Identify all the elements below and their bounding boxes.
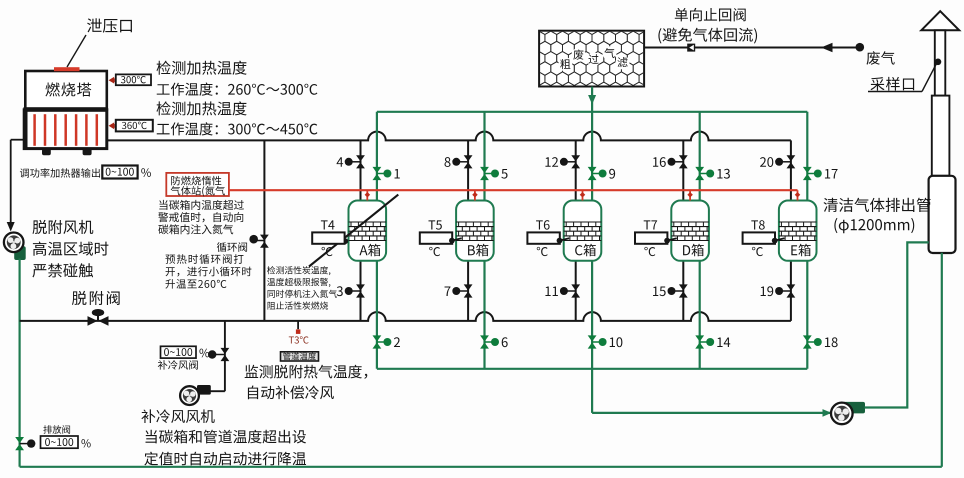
- wire unit D箱 bottom green: [699, 261, 701, 369]
- label C T8: [752, 247, 763, 256]
- valve 17: [803, 167, 812, 173]
- valve 8: [464, 155, 473, 161]
- probe diagonal T4: [309, 195, 398, 267]
- text working temp 1: [157, 83, 318, 96]
- red stub into box C箱: [582, 190, 584, 200]
- label 9: [609, 169, 615, 179]
- valve 9: [588, 167, 597, 173]
- wire left downcomer: [10, 140, 12, 223]
- label T8: [751, 220, 764, 229]
- label 16: [653, 157, 666, 167]
- flow arrow waste gas: [821, 43, 833, 53]
- arrow to tower at 300C: [109, 77, 115, 84]
- valve 1: [373, 167, 382, 173]
- desorption valve 脱附阀: [92, 309, 104, 316]
- desorption fan housing: [14, 246, 26, 260]
- label A箱: [359, 244, 380, 256]
- T3 sensor tick: [297, 321, 299, 329]
- check valve 单向止回阀: [687, 44, 695, 52]
- leader line to 泄压口 label: [67, 35, 86, 67]
- label 废气: [867, 51, 895, 65]
- label 0~100 cold air: [164, 348, 192, 356]
- text heating temp 2: [157, 101, 247, 115]
- label 18: [825, 337, 838, 347]
- adsorber box B箱: [456, 201, 494, 261]
- thick separator bar: [24, 107, 108, 112]
- valve 14: [695, 335, 704, 341]
- label % discharge: [81, 439, 90, 447]
- label 300C: [121, 76, 146, 83]
- label C T7: [644, 247, 655, 256]
- label 补冷风风机: [141, 409, 214, 423]
- label T5: [428, 220, 441, 229]
- wire unit B箱 top black: [467, 140, 469, 200]
- label 10: [610, 337, 623, 347]
- pressure relief cap 泄压口: [54, 67, 80, 71]
- valve 19: [787, 284, 796, 290]
- label C箱: [575, 244, 596, 256]
- label 循环阀: [217, 242, 247, 252]
- carbon bed band B箱: [456, 222, 494, 241]
- label T6: [536, 220, 550, 229]
- label 补冷风阀: [158, 360, 198, 369]
- label 15: [653, 286, 666, 296]
- wire cold-air branch vertical: [224, 321, 226, 391]
- valve 11: [571, 284, 580, 290]
- label φ1200mm: [834, 218, 914, 233]
- label 360C: [122, 122, 147, 129]
- red stub into box B箱: [474, 190, 476, 200]
- text 温度超极限报警: [267, 278, 330, 287]
- circulation fan: [831, 403, 853, 425]
- wire unit E箱 top black: [790, 140, 792, 200]
- label 11: [545, 286, 557, 296]
- combustion tower upper body 燃烧塔: [25, 71, 107, 110]
- text heating temp 1: [157, 61, 247, 75]
- waste gas inlet dot: [856, 43, 865, 52]
- wire unit C箱 bottom black: [575, 261, 577, 321]
- label 8: [444, 157, 450, 167]
- label 气体站(氮气: [171, 186, 225, 197]
- label 12: [545, 157, 558, 167]
- wire circulation vertical: [263, 140, 265, 321]
- wire filter drop: [591, 87, 593, 112]
- label 采样口 with leader: [871, 77, 915, 91]
- cold air valve actuator: [215, 354, 225, 356]
- text 开，进行小循环时: [166, 267, 252, 277]
- wire unit A箱 top green: [376, 112, 378, 201]
- probe tip T8: [775, 238, 785, 240]
- wire green left vertical: [19, 259, 21, 467]
- tower foot right: [83, 149, 92, 156]
- label 管道温度: [283, 352, 316, 360]
- heater box of tower: [24, 110, 107, 149]
- label 0~100 discharge: [45, 438, 73, 446]
- wire unit B箱 top green: [483, 112, 485, 201]
- T3 sensor red tip: [296, 329, 301, 334]
- probe tip T5: [452, 238, 462, 240]
- red stub into box D箱: [689, 190, 691, 200]
- label 4: [337, 157, 344, 167]
- label 燃烧塔: [45, 82, 91, 96]
- probe tip T6: [560, 238, 570, 240]
- cold air fan housing: [197, 385, 211, 395]
- stack cone: [921, 11, 959, 30]
- flow arrow filter drop: [588, 95, 596, 105]
- label 6: [502, 337, 508, 347]
- wire top black manifold: [107, 132, 791, 141]
- valve 10: [588, 335, 597, 341]
- label 泄压口: [87, 18, 132, 33]
- stack neck: [935, 30, 946, 95]
- text 调功率加热器输出: [20, 168, 100, 177]
- label 14: [717, 337, 730, 347]
- wire unit D箱 top black: [682, 140, 684, 200]
- text 自动补偿冷风: [248, 386, 334, 400]
- carbon bed band E箱: [779, 222, 817, 241]
- carbon bed band D箱: [671, 222, 709, 241]
- flow arrow into fan: [823, 409, 832, 417]
- adsorber box A箱: [349, 201, 387, 261]
- valve 2: [373, 335, 382, 341]
- wire unit E箱 bottom green: [806, 261, 808, 369]
- desorption fan 脱附风机: [4, 233, 24, 253]
- valve 6: [480, 335, 489, 341]
- red stub into box E箱: [797, 190, 799, 200]
- text 当碳箱和管道温度超出设: [146, 430, 307, 444]
- valve 20: [787, 155, 796, 161]
- sampling port dot: [935, 59, 942, 66]
- box 360C: [116, 120, 153, 132]
- wire unit B箱 bottom black: [467, 261, 469, 321]
- filter label chars 粗废过气滤: [558, 57, 572, 71]
- wire unit E箱 top green: [806, 112, 808, 201]
- box 0~100 cold air: [161, 346, 197, 358]
- valve 13: [695, 167, 704, 173]
- valve 15: [679, 284, 688, 290]
- valve 4: [356, 155, 365, 161]
- wire lower black manifold: [20, 312, 791, 321]
- text working temp 2: [157, 122, 318, 135]
- wire unit B箱 bottom green: [483, 261, 485, 369]
- heater elements (red rods): [35, 114, 97, 146]
- adsorber box D箱: [671, 201, 709, 261]
- circulation fan housing: [843, 402, 866, 414]
- text 阻止活性炭燃烧: [268, 301, 329, 309]
- text 检测活性炭温度: [267, 266, 330, 275]
- cold air fan 补冷风风机: [180, 386, 199, 405]
- probe body T6: [527, 232, 559, 243]
- label 脱附风机: [32, 220, 93, 234]
- label 17: [825, 169, 838, 179]
- probe tip T7: [667, 238, 677, 240]
- adsorber box E箱: [779, 201, 817, 261]
- text 预热时循环阀打: [165, 254, 243, 264]
- wire unit C箱 top black: [575, 140, 577, 200]
- wire unit C箱 bottom green: [591, 261, 593, 369]
- label 高温区域时: [33, 242, 109, 256]
- wire unit A箱 bottom green: [376, 261, 378, 369]
- adsorber box C箱: [564, 201, 602, 261]
- label C T6: [537, 247, 548, 256]
- text 同时停机注入氮气: [268, 290, 337, 298]
- text 监测脱附热气温度: [245, 365, 368, 379]
- wire green top header: [377, 111, 807, 113]
- wire drop to circulation fan: [591, 369, 593, 413]
- text 当碳箱内温度超过: [159, 200, 244, 210]
- nitrogen station box 防燃烧惰性气体站: [166, 173, 229, 196]
- label 1: [395, 169, 400, 179]
- box 0~100 discharge: [41, 436, 79, 448]
- label 20: [760, 157, 773, 167]
- discharge valve 排放阀: [15, 437, 24, 443]
- wire unit D箱 top green: [699, 112, 701, 201]
- valve 12: [571, 155, 580, 161]
- valve 16: [679, 155, 688, 161]
- stack lower drum: [929, 176, 956, 253]
- wire unit C箱 top green: [591, 112, 593, 201]
- valve 7: [464, 284, 473, 290]
- text 升温至260C: [165, 279, 226, 289]
- label 严禁碰触: [32, 263, 93, 277]
- wire stack bottom drop: [941, 253, 943, 467]
- wire unit E箱 bottom black: [790, 261, 792, 321]
- label 3: [337, 286, 343, 296]
- label T4: [321, 220, 335, 229]
- label % heater: [141, 168, 151, 177]
- carbon bed band A箱: [349, 222, 387, 241]
- box 管道温度: [281, 352, 319, 361]
- label C T5: [429, 247, 440, 256]
- text 定值时自动启动进行降温: [144, 452, 306, 466]
- wire fan outlet: [865, 242, 929, 407]
- wire unit D箱 bottom black: [682, 261, 684, 321]
- probe body T4: [312, 232, 344, 243]
- label T3C: [289, 336, 309, 343]
- box 0~100 heater: [102, 166, 137, 179]
- label 清洁气体排出管: [824, 198, 931, 212]
- label 避免气体回流: [658, 28, 757, 44]
- text 警戒值时自动向: [158, 212, 243, 222]
- wire to circulation fan: [592, 412, 830, 414]
- label 19: [761, 286, 774, 296]
- label C T4: [322, 247, 333, 256]
- label 7: [445, 286, 451, 296]
- valve 5: [480, 167, 489, 173]
- label 排放阀: [43, 425, 70, 434]
- label B箱: [468, 244, 488, 256]
- cold air valve 补冷风阀: [221, 348, 230, 354]
- text 碳箱内注入氮气: [158, 224, 233, 234]
- label 0~100 heater: [106, 168, 134, 176]
- arrow to tower at 360C: [109, 122, 115, 129]
- flow arrow down to fan: [7, 222, 15, 232]
- wire unit A箱 bottom black: [360, 261, 362, 321]
- discharge valve actuator dot: [20, 443, 30, 445]
- valve 3: [356, 284, 365, 290]
- tower foot left: [42, 149, 51, 156]
- wire unit A箱 top black: [360, 140, 362, 200]
- label % cold air: [199, 349, 209, 358]
- probe body T8: [743, 232, 775, 243]
- circulation valve actuator: [254, 240, 264, 242]
- valve 18: [803, 335, 812, 341]
- wire green bottom header: [377, 368, 807, 370]
- probe body T7: [635, 232, 667, 243]
- label 13: [717, 169, 730, 179]
- label E箱: [791, 244, 810, 256]
- label 2: [394, 337, 400, 347]
- label 5: [501, 169, 507, 179]
- wire nitrogen red line: [228, 189, 797, 191]
- carbon bed band C箱: [564, 222, 602, 241]
- stack middle tube: [932, 96, 950, 176]
- circulation valve 循环阀: [260, 235, 269, 241]
- wire bottom green bus: [20, 466, 942, 468]
- label D箱: [683, 244, 704, 256]
- label 脱附阀: [72, 291, 120, 305]
- box 300C: [116, 74, 151, 85]
- label 防燃烧惰性: [171, 176, 221, 186]
- wire cold-air branch horizontal: [211, 390, 225, 392]
- wire tower left stub: [11, 139, 25, 141]
- label 单向止回阀: [675, 8, 746, 21]
- wire waste gas line: [644, 47, 859, 49]
- label T7: [644, 220, 657, 229]
- probe body T5: [420, 232, 452, 243]
- red stub into box A箱: [366, 190, 368, 200]
